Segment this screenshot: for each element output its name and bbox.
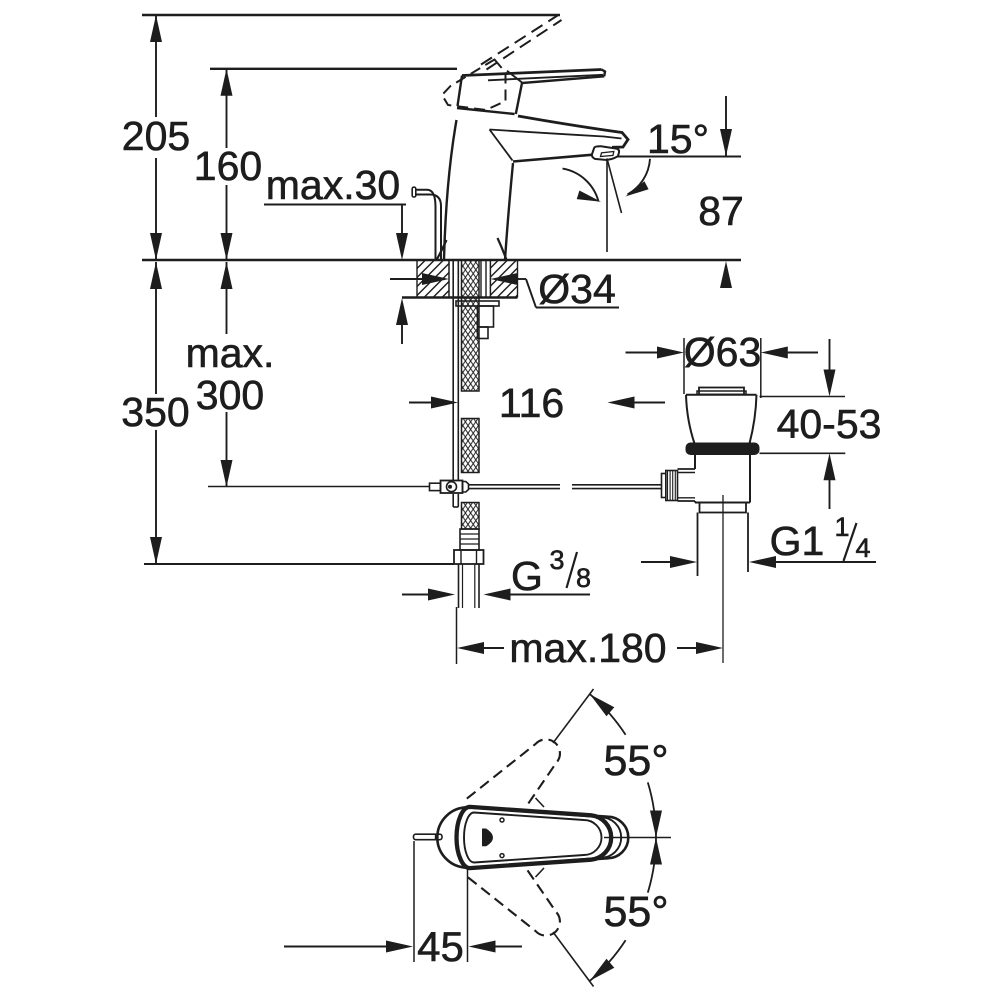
node rod end cap [430,483,441,490]
node dia63 label [684,329,762,375]
node counter cross-section hatch right [452,260,553,298]
node waste valve body [695,455,750,503]
node faucet base flare right [498,238,507,260]
node 40-53 label [777,401,882,447]
node lever inner top line [488,75,603,81]
node shank hole walls [449,260,490,298]
node faucet body top line [457,108,515,114]
node waste valve tailpipe [698,513,749,577]
node 45 label [417,923,464,970]
node max.300 dimension line [221,262,233,487]
node faucet spout top edge [518,116,628,147]
node hose nut [454,550,484,564]
svg-text:15°: 15° [647,116,709,162]
node lever tip [602,70,606,77]
svg-text:160: 160 [194,143,262,189]
svg-text:87: 87 [698,188,744,234]
wire bottom view centerline [604,837,671,839]
node 205 dimension line [150,15,162,260]
node G3/8 arrows [402,589,590,601]
node bottom view handle inner line [464,813,602,863]
node aerator [592,146,619,160]
node waste valve push cap [697,388,746,395]
node 55deg upper label [603,737,668,785]
node 116 arrows [409,397,665,409]
node 55deg lower arc [590,838,662,981]
node mounting washer [456,301,499,306]
wire countertop bottom line [402,296,518,298]
node faucet body right edge [505,163,513,260]
node mounting nut [478,306,494,339]
wire waste valve centerline [722,495,724,663]
node 205 label [122,113,190,159]
svg-text:45: 45 [417,923,464,970]
node faucet spout bottom edge [513,155,592,162]
svg-text:300: 300 [196,372,264,418]
svg-text:4: 4 [855,533,870,563]
node dia34 arrows [390,273,536,308]
node lever raised dashed line 1 [481,16,558,65]
node faucet base flare left [437,240,447,260]
svg-text:350: 350 [121,389,189,435]
svg-text:205: 205 [122,113,190,159]
svg-text:max.: max. [186,330,275,376]
node 55deg lower label [603,888,668,936]
node max.30 arrows [396,233,408,344]
node flex hose segment A [462,260,480,391]
svg-text:Ø34: Ø34 [538,266,616,312]
node max.30 label [266,162,400,208]
svg-text:116: 116 [499,380,564,426]
node 350 dimension line [150,262,162,564]
svg-text:55°: 55° [603,888,668,936]
node dia34 label [536,266,619,312]
node 40-53 extension lines [760,397,846,454]
node 40-53 dimension arrows [824,339,836,509]
node rod clamp [441,481,463,494]
node 87 label [698,188,744,234]
wire outlet vertical centerline [606,159,608,253]
node bottom view body outline [437,807,628,867]
node waste valve knurled knob [662,471,678,501]
node 15deg label [647,116,709,162]
node rod clamp nub [463,482,469,493]
svg-text:8: 8 [576,563,591,593]
node dia63 arrows [626,347,819,359]
wire pull rod centerline left [208,486,430,488]
node lever top edge [462,70,602,76]
node waste valve union nut [700,503,747,513]
node 87 dimension line [720,96,732,288]
wire max.30 leader [264,205,406,239]
node handle rotated up dashed [467,725,571,832]
node max.180 arrows [457,642,723,654]
node flex hose segment C [462,503,480,530]
svg-text:max.30: max.30 [266,162,400,208]
node shank extra line [481,260,486,298]
node hose crimp fitting [460,529,479,550]
wire outlet 15deg slanted line [607,159,622,214]
node handle rotated down dashed [467,843,571,950]
wire 55deg upper slanted line [536,689,594,807]
node max.180 extension line left [456,607,458,664]
node bottom view pull rod [414,834,443,840]
node lever crease [507,71,522,83]
wire hose length reference line (350 bottom) [144,563,454,565]
node bottom view spout inner line [556,814,621,861]
svg-text:40-53: 40-53 [777,401,882,447]
svg-text:G: G [511,553,543,599]
wire pull rod right [469,485,662,489]
node 15deg left arc [563,169,602,202]
node 160 label [194,143,262,189]
node lever neck left edge [458,76,463,107]
node hose tube [459,564,480,608]
svg-text:3: 3 [549,545,564,575]
node 45 arrows [284,941,522,953]
svg-text:1: 1 [834,512,849,542]
svg-text:G1: G1 [770,518,825,564]
node 160 dimension line [221,69,233,260]
node faucet body left edge [444,120,457,260]
node 55deg upper arc [590,694,662,837]
wire countertop top line [142,259,741,262]
wire 160 reference line [210,68,457,70]
node G1-1/4 arrows [641,556,876,568]
node flex hose segment B [462,419,480,473]
node waste valve side port [678,469,696,501]
node lever raised dashed line 2 [487,20,562,70]
svg-text:max.180: max.180 [509,625,666,671]
node handle dot upper [500,818,504,822]
node faucet spout inner diagonal [490,130,513,161]
node faucet spout inner top line [490,130,622,139]
node max.180 label [509,625,666,671]
node 350 label [121,389,189,435]
wire aerator horizontal reference [617,156,741,158]
node lever raised dashed base [442,60,506,111]
svg-text:55°: 55° [603,737,668,785]
node 15deg right arc [625,159,650,197]
node dia63 extension lines [684,338,761,398]
node G1-1/4 label [770,512,871,564]
node threaded stud [453,260,458,507]
node pop-up rod [412,187,441,260]
svg-text:Ø63: Ø63 [684,329,762,375]
node max.300 label [186,330,275,418]
node lever bottom edge [516,76,604,114]
node 116 label [499,380,564,426]
wire 55deg lower slanted line [536,868,594,987]
node G3/8 label [511,545,591,599]
node 45 extension lines [414,841,468,962]
node bottom view handle outline [457,807,612,868]
node handle logo recess [483,829,493,846]
node handle dot lower [500,854,504,858]
wire top reference line (lever raised height) [142,14,560,16]
node waste valve seal ring [686,443,760,456]
node waste valve trumpet [686,395,757,444]
node counter cross-section hatch left [379,260,480,298]
node waste valve flange top [686,394,757,396]
